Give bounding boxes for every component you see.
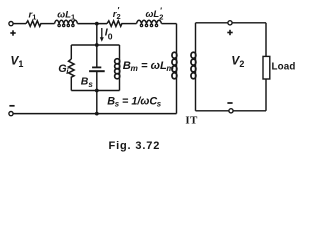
svg-text:Bm = ωLm: Bm = ωLm [123, 60, 175, 73]
svg-text:ωL2′: ωL2′ [146, 6, 164, 21]
svg-text:Load: Load [272, 62, 296, 73]
svg-text:Fig. 3.72: Fig. 3.72 [109, 140, 161, 152]
svg-text:IT: IT [185, 114, 198, 126]
